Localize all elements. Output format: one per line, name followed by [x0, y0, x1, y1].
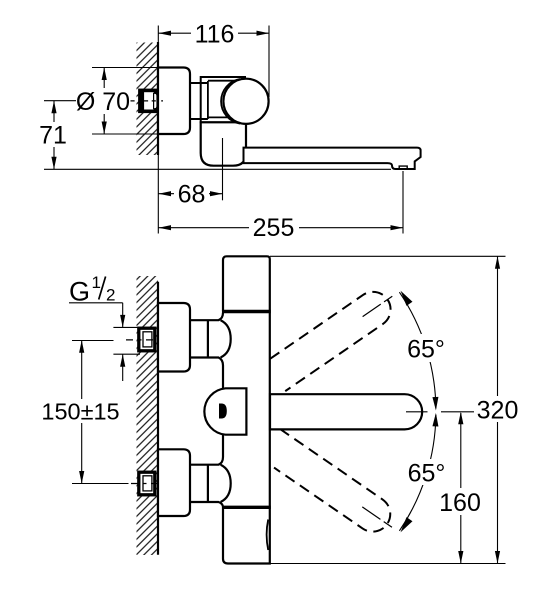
svg-text:65°: 65° — [407, 336, 445, 364]
svg-text:2: 2 — [106, 286, 115, 305]
svg-text:160: 160 — [439, 489, 481, 517]
svg-text:116: 116 — [195, 21, 235, 49]
svg-text:G: G — [69, 277, 90, 307]
svg-text:150±15: 150±15 — [41, 399, 119, 425]
svg-text:320: 320 — [477, 397, 519, 425]
svg-text:71: 71 — [39, 122, 67, 150]
svg-text:65°: 65° — [408, 460, 446, 488]
svg-text:68: 68 — [178, 181, 206, 209]
svg-text:1: 1 — [92, 273, 101, 292]
svg-text:255: 255 — [253, 214, 295, 242]
svg-text:Ø 70: Ø 70 — [76, 88, 130, 116]
